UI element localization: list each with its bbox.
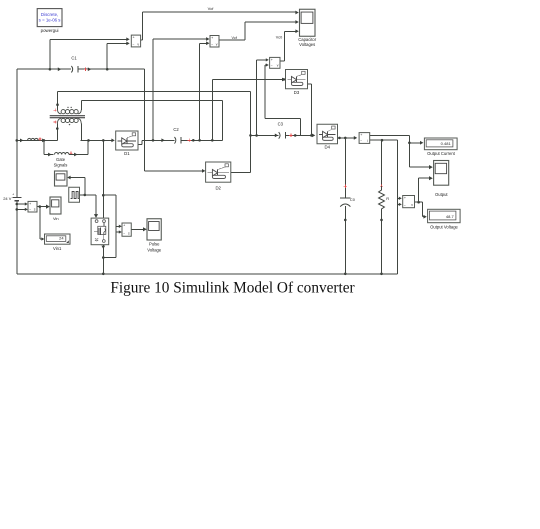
svg-text:Vin: Vin (53, 216, 59, 221)
svg-text:C2: C2 (173, 127, 179, 132)
svg-text:+: + (211, 36, 213, 40)
svg-text:v: v (411, 203, 413, 207)
svg-text:Vc0: Vc0 (276, 35, 283, 39)
svg-text:powergui: powergui (41, 28, 59, 33)
svg-text:D2: D2 (215, 186, 221, 191)
svg-text:+: + (404, 196, 406, 200)
svg-text:0.481: 0.481 (441, 141, 452, 146)
svg-text:+: + (360, 133, 362, 137)
svg-text:D3: D3 (294, 90, 300, 95)
svg-text:Vcf: Vcf (232, 36, 238, 40)
svg-text:Vcf: Vcf (208, 6, 215, 11)
svg-text:+: + (271, 58, 273, 62)
svg-text:v: v (277, 64, 279, 68)
svg-text:C0: C0 (350, 197, 356, 202)
svg-text:Voltages: Voltages (299, 42, 315, 47)
svg-text:Voltage: Voltage (147, 247, 162, 252)
svg-text:Output Current: Output Current (427, 151, 456, 156)
svg-text:48.7: 48.7 (446, 214, 455, 219)
svg-text:24 V: 24 V (3, 196, 12, 201)
svg-text:D1: D1 (124, 151, 130, 156)
svg-text:s: s (128, 232, 130, 236)
svg-text:s = 1e-06 s: s = 1e-06 s (39, 18, 62, 23)
svg-text:Signals: Signals (54, 163, 68, 168)
svg-text:Gate: Gate (56, 157, 66, 162)
svg-text:−: − (29, 208, 31, 212)
svg-text:v: v (216, 42, 218, 46)
svg-text:v: v (137, 42, 139, 46)
svg-text:−: − (271, 64, 273, 68)
svg-text:Pulse: Pulse (149, 242, 160, 247)
svg-text:−: − (133, 43, 135, 47)
svg-text:24: 24 (59, 236, 64, 241)
svg-text:−: − (123, 232, 125, 236)
svg-text:Discrete,: Discrete, (41, 12, 58, 17)
svg-text:C1: C1 (71, 56, 77, 61)
svg-text:+: + (12, 193, 14, 197)
svg-text:D4: D4 (325, 144, 331, 149)
svg-text:−: − (404, 203, 406, 207)
svg-text:Output Voltage: Output Voltage (430, 224, 458, 229)
svg-text:−: − (360, 139, 362, 143)
svg-text:s: s (34, 207, 36, 211)
svg-text:R: R (386, 196, 389, 201)
svg-text:Figure 10 Simulink Model Of co: Figure 10 Simulink Model Of converter (110, 280, 354, 297)
svg-text:−: − (211, 43, 213, 47)
svg-text:+: + (29, 202, 31, 206)
svg-text:+: + (132, 36, 134, 40)
svg-text:+: + (123, 224, 125, 228)
svg-text:Vin1: Vin1 (53, 246, 62, 251)
svg-text:Output: Output (435, 192, 448, 197)
svg-text:C3: C3 (278, 121, 284, 126)
